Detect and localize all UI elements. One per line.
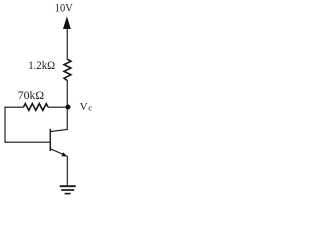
wire emitter to ground bbox=[66, 156, 68, 187]
wire R1 bottom to node Vc bbox=[66, 80, 68, 107]
ground top line bbox=[60, 185, 76, 187]
wire left vertical feedback bbox=[4, 107, 6, 143]
svg-text:V: V bbox=[80, 101, 88, 113]
wire supply to resistor R1 bbox=[66, 29, 68, 60]
svg-text:10V: 10V bbox=[55, 3, 74, 15]
junction dot node Vc bbox=[66, 105, 71, 110]
resistor R2 70k zigzag bbox=[24, 104, 49, 111]
svg-text:c: c bbox=[88, 102, 92, 112]
resistor R1 1.2k zigzag bbox=[64, 59, 71, 80]
transistor Q1 emitter arrowhead bbox=[61, 152, 67, 156]
wire base lead bbox=[4, 141, 50, 143]
transistor Q1 base bar bbox=[49, 129, 51, 151]
svg-text:1.2kΩ: 1.2kΩ bbox=[28, 58, 55, 72]
supply arrow symbol bbox=[63, 16, 71, 29]
wire R2 right terminal to node Vc bbox=[48, 106, 67, 108]
svg-text:70kΩ: 70kΩ bbox=[18, 88, 44, 102]
transistor Q1 collector lead bbox=[50, 129, 67, 131]
wire collector vertical bbox=[66, 106, 68, 130]
ground middle line bbox=[61, 189, 74, 191]
wire R2 left terminal to corner bbox=[5, 106, 24, 108]
ground bottom line bbox=[65, 193, 71, 195]
transistor Q1 emitter lead bbox=[50, 149, 64, 155]
